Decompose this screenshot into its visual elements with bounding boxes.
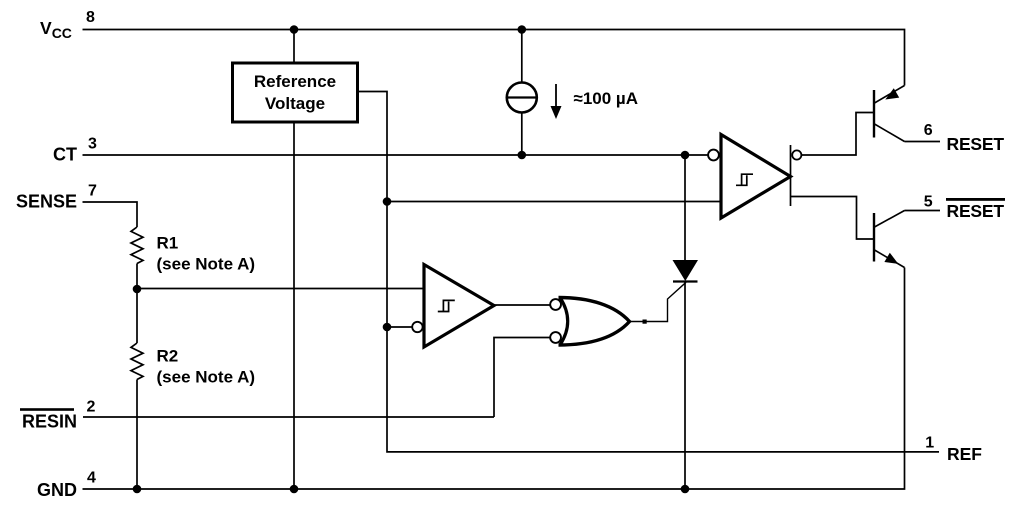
svg-text:6: 6 [924,122,933,139]
node junction GND-SCR [681,485,690,494]
pin 8 number [86,9,95,26]
svg-text:4: 4 [87,469,96,486]
wire R1 to junction [136,264,138,290]
svg-text:(see Note A): (see Note A) [157,368,256,387]
node junction CT-SCR [681,151,690,160]
OR gate G1 [559,298,630,346]
transistor Q1 collector [875,124,905,142]
svg-text:R2: R2 [157,347,179,366]
wire junction to R2 [136,289,138,343]
wire reference box bottom to GND [293,122,295,489]
wire pin 6 [905,141,941,143]
transistor Q2 base bar [873,213,875,262]
wire reference output right and down to REF [357,92,939,452]
svg-text:8: 8 [86,9,95,26]
wire reference box top [293,30,295,64]
wire VCC rail [83,30,905,86]
wire SENSE to divider [83,202,138,227]
wire RESIN line [83,416,494,418]
svg-text:GND: GND [37,480,77,500]
svg-text:7: 7 [88,183,97,200]
pin 6 number [924,122,933,139]
pin VCC label [40,18,72,41]
OR gate input bubble bottom [550,332,561,343]
pin 2 number [87,399,96,416]
pin REF label [947,444,982,464]
wire R2 to GND [136,380,138,490]
wire U2 output to OR gate [494,304,550,306]
svg-text:SENSE: SENSE [16,192,77,212]
block Reference Voltage [233,63,358,122]
wire SCR cathode to GND [684,282,686,490]
svg-text:1: 1 [925,435,934,452]
svg-text:RESIN: RESIN [22,412,77,432]
label R2 [157,347,256,387]
svg-text:2: 2 [87,399,96,416]
pin 7 number [88,183,97,200]
svg-text:3: 3 [88,136,97,153]
wire U2 inverting input [387,326,412,328]
transistor Q2 emitter [875,250,905,268]
current source I1 [507,30,537,156]
svg-text:Reference: Reference [254,72,336,91]
pin 4 number [87,469,96,486]
resistor R2 [131,343,143,380]
wire U1 noninverting input [387,201,721,203]
svg-text:RESET: RESET [947,201,1005,221]
svg-text:R1: R1 [157,234,179,253]
transistor Q1 base bar [873,90,875,138]
transistor Q1 emitter [875,86,905,104]
svg-text:CT: CT [53,145,77,165]
svg-text:≈100 µA: ≈100 µA [574,89,639,108]
svg-text:REF: REF [947,444,982,464]
svg-text:RESET: RESET [947,134,1005,154]
U1 output bubble [792,150,801,159]
label R1 [157,234,256,274]
wire pin 5 [905,210,941,212]
svg-text:(see Note A): (see Note A) [157,255,256,274]
pin RESET-bar label with overline [946,198,1005,221]
wire U1 inverted output to Q1 base [801,113,873,156]
pin 3 number [88,136,97,153]
node junction VCC-reference [290,25,299,34]
node junction GND-R2 [133,485,142,494]
U2 input bubble [412,322,422,332]
node junction ref-U1 input [383,197,392,206]
pin 1 number [925,435,934,452]
thyristor SCR anode wire [684,155,686,261]
node junction ref-U2 input [383,323,392,332]
node SCR gate marker [643,320,647,324]
pin 5 number [924,193,933,210]
node junction VCC-currentsource [518,25,527,34]
pin SENSE label [16,192,77,212]
node junction GND-reference [290,485,299,494]
OR gate input bubble top [550,299,561,310]
comparator U2 [424,265,494,348]
U1 output bar [790,145,792,206]
node junction divider tap [133,285,142,294]
svg-text:Voltage: Voltage [265,94,325,113]
pin RESET label [947,134,1005,154]
svg-text:5: 5 [924,193,933,210]
wire OR output to SCR gate [629,282,686,321]
resistor R1 [131,227,143,264]
pin RESIN label with overline [20,408,77,431]
current direction arrow [551,84,562,119]
pin GND label [37,480,77,500]
wire RESIN to OR gate input [494,338,550,418]
wire GND rail [83,268,905,490]
node junction CT-currentsource [518,151,527,160]
pin CT label [53,145,77,165]
label 100uA [574,89,639,108]
thyristor SCR [673,260,699,282]
wire CT line [83,154,709,156]
wire U1 direct output to Q2 base [791,197,874,240]
transistor Q2 collector [875,211,905,228]
wire divider tap to U2 input [137,288,424,290]
U1 input bubble [708,150,719,161]
comparator U1 [721,135,791,219]
